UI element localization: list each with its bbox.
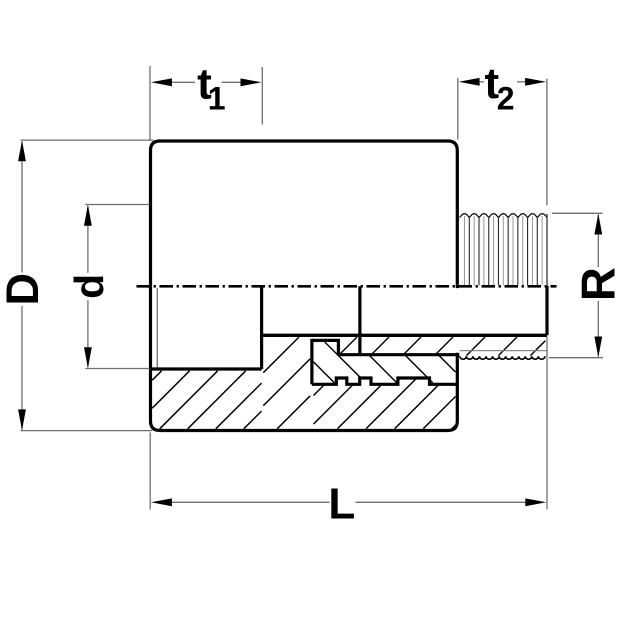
- svg-text:R: R: [572, 267, 620, 301]
- hatching: plastic body section, left block under socket: [152, 371, 261, 429]
- svg-text:D: D: [0, 273, 48, 306]
- socket bottom: [151, 367, 262, 370]
- svg-text:1: 1: [208, 80, 226, 116]
- insert face: [358, 286, 361, 355]
- insert step: [312, 340, 339, 354]
- socket mouth edge (thin): [156, 288, 158, 367]
- dimension D: [21, 140, 154, 431]
- hatching: insert cross-section (opposite direction): [314, 342, 456, 383]
- hatching: plastic body section, below insert: [314, 378, 456, 429]
- insert left edge: [310, 339, 313, 385]
- svg-text:2: 2: [497, 80, 515, 116]
- thread crest wavy line (section): [460, 356, 545, 359]
- hatching: threaded wall band: [341, 337, 546, 356]
- centerline (axis): [137, 285, 557, 288]
- dimension R: [549, 213, 603, 357]
- dimension L: [150, 337, 547, 510]
- thread flanks: [468, 217, 470, 285]
- thread root line (section): [460, 350, 547, 352]
- socket shoulder wall: [260, 286, 263, 369]
- thread wall bottom edge: [338, 353, 459, 356]
- thread end face (top, thin): [546, 214, 548, 286]
- bore line: [262, 334, 547, 337]
- insert serration teeth profile: [312, 378, 456, 384]
- thread end face (section, thick): [545, 286, 548, 336]
- hatching: plastic body section, middle strip: [263, 337, 310, 429]
- svg-text:L: L: [328, 479, 355, 528]
- thread crest profile (top, external view): [460, 214, 547, 218]
- body outline: [151, 141, 458, 431]
- dimension d: [85, 205, 149, 369]
- dimension t1: [150, 66, 262, 140]
- svg-text:d: d: [66, 274, 112, 299]
- dimension t2: [458, 78, 547, 205]
